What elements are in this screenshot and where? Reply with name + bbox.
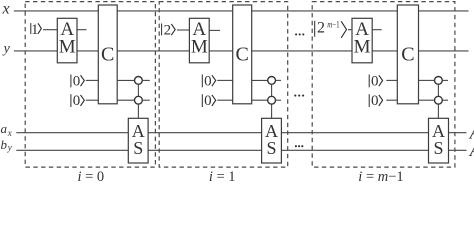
svg-text:A: A	[469, 140, 474, 160]
svg-text:S: S	[133, 138, 143, 158]
svg-text:S: S	[266, 138, 276, 158]
ket |0> ancilla 1 (block m-1)	[369, 73, 382, 89]
wire C to control circle 2 (block 0)	[117, 99, 134, 101]
multiplier box AM (block m-1)	[352, 18, 372, 63]
wire C to control circle 2 (block 1)	[252, 99, 268, 101]
adder-subtractor box AS (block m-1)	[429, 118, 449, 163]
svg-text:i = m−1: i = m−1	[358, 169, 403, 182]
multiplier box AM (block 0)	[57, 18, 77, 63]
wire C to control circle 1 (block m-1)	[419, 79, 435, 81]
ket |0> ancilla 1 (block 0)	[71, 73, 84, 89]
multiplier box AM (block 1)	[189, 18, 209, 63]
dashed block i=m-1	[312, 2, 455, 168]
svg-text:M: M	[354, 37, 371, 58]
wire ket2 to AM	[177, 29, 190, 31]
ket |0> ancilla 2 (block 0)	[71, 93, 84, 109]
wire AM output stub (block m-1)	[372, 29, 382, 31]
wire control vertical to AS (block 1)	[271, 84, 273, 118]
wire circle2 right stub (block 1)	[276, 99, 282, 101]
ket |0> ancilla 2 (block 1)	[202, 93, 215, 109]
wire y (second qubit line)	[14, 50, 469, 52]
ket |2> input of block 1	[162, 22, 176, 38]
svg-text:x: x	[1, 1, 9, 18]
ket |1> input of block 0	[31, 22, 42, 38]
wire circle2 right stub (block 0)	[142, 99, 150, 101]
wire ancilla1 to C (block 1)	[217, 79, 233, 81]
svg-text:y: y	[2, 42, 11, 57]
control circle 1 (block m-1)	[435, 77, 443, 85]
svg-text:0: 0	[73, 93, 81, 109]
wire C to control circle 1 (block 0)	[117, 79, 134, 81]
node ellipsis accumulator rows	[295, 145, 304, 147]
svg-text:i = 1: i = 1	[209, 169, 236, 182]
svg-text:0: 0	[204, 73, 212, 89]
wire circle1 right stub (block 1)	[276, 79, 282, 81]
wire control vertical to AS (block m-1)	[437, 84, 439, 118]
ket |2^(m-1)> input of block m-1	[315, 19, 347, 38]
svg-text:2: 2	[164, 22, 172, 38]
svg-text:0: 0	[371, 73, 379, 89]
wire ancilla1 to C (block m-1)	[386, 79, 397, 81]
svg-text:m−1: m−1	[327, 19, 339, 29]
wire ancilla2 to C (block 1)	[217, 99, 233, 101]
adder-subtractor box AS (block 0)	[128, 118, 148, 163]
wire C to control circle 2 (block m-1)	[419, 99, 435, 101]
wire circle1 right stub (block m-1)	[442, 79, 448, 81]
adder-subtractor box AS (block 1)	[262, 118, 282, 163]
wire ket1 to AM	[43, 29, 57, 31]
wire ancilla2 to C (block 0)	[86, 99, 99, 101]
wire AM output stub (block 1)	[209, 29, 220, 31]
wire ancilla2 to C (block m-1)	[386, 99, 397, 101]
wire AM output stub (block 0)	[77, 29, 87, 31]
comparator box C (block m-1)	[397, 5, 418, 104]
dashed block i=1	[159, 2, 288, 168]
wire a_x (accumulator line)	[16, 132, 466, 134]
svg-text:S: S	[433, 138, 443, 158]
ket |0> ancilla 2 (block m-1)	[369, 93, 382, 109]
comparator box C (block 1)	[233, 5, 252, 104]
svg-text:M: M	[59, 37, 76, 58]
svg-text:C: C	[236, 44, 249, 66]
wire ket to AM (block m-1)	[348, 29, 352, 31]
svg-text:0: 0	[204, 93, 212, 109]
svg-text:2: 2	[317, 20, 325, 37]
svg-text:C: C	[101, 44, 114, 66]
control circle 1 (block 0)	[135, 77, 143, 85]
wire b_y (accumulator line)	[16, 149, 466, 151]
svg-text:i = 0: i = 0	[77, 169, 104, 182]
ket |0> ancilla 1 (block 1)	[202, 73, 215, 89]
wire circle1 right stub (block 0)	[142, 79, 150, 81]
svg-text:0: 0	[73, 73, 81, 89]
svg-text:1: 1	[31, 22, 39, 38]
svg-text:M: M	[191, 37, 208, 58]
wire x (top qubit line)	[14, 10, 469, 12]
comparator box C (block 0)	[98, 5, 117, 104]
wire control vertical to AS (block 0)	[137, 84, 139, 118]
svg-text:0: 0	[371, 93, 379, 109]
wire ancilla1 to C (block 0)	[86, 79, 99, 81]
control circle 1 (block 1)	[268, 77, 276, 85]
control circle 2 (block 0)	[135, 96, 143, 104]
control circle 2 (block m-1)	[435, 96, 443, 104]
svg-text:C: C	[401, 44, 414, 66]
node ellipsis ancilla rows	[294, 95, 304, 97]
node ellipsis ket row	[295, 33, 304, 35]
control circle 2 (block 1)	[268, 96, 276, 104]
wire circle2 right stub (block m-1)	[442, 99, 448, 101]
dashed block i=0	[25, 2, 155, 168]
wire C to control circle 1 (block 1)	[252, 79, 268, 81]
